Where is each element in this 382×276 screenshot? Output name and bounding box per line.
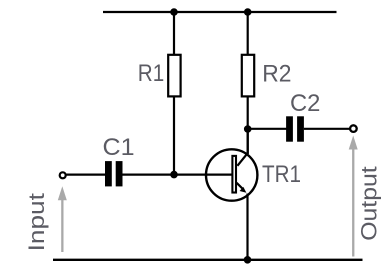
svg-text:TR1: TR1 — [262, 161, 301, 188]
input terminal — [60, 172, 66, 178]
wire rail to R1 — [173, 12, 175, 56]
output terminal — [350, 125, 357, 132]
wire input terminal to C1 — [66, 174, 105, 176]
svg-text:R1: R1 — [138, 60, 164, 87]
wire C2 to output terminal — [304, 128, 350, 130]
capacitor C2 plate right — [297, 116, 304, 141]
svg-text:R2: R2 — [262, 60, 291, 87]
capacitor C1 plate right — [116, 161, 123, 186]
junction dot rail/R1 — [170, 8, 178, 16]
wire top supply rail — [103, 11, 337, 13]
input signal arrow — [58, 186, 67, 252]
svg-text:Input: Input — [24, 193, 49, 251]
wire R1 to base node — [173, 96, 175, 176]
transistor TR1 collector stroke — [237, 153, 248, 166]
junction dot rail/R2 — [244, 8, 252, 16]
transistor TR1 emitter arrowhead — [240, 187, 247, 193]
resistor R1 — [168, 55, 180, 97]
junction dot collector/C2 node — [244, 125, 252, 133]
wire emitter to ground rail — [246, 194, 248, 261]
wire collector diag to junction (through circle top) — [247, 129, 249, 154]
capacitor C1 plate left — [105, 161, 112, 186]
output signal arrow — [349, 136, 358, 257]
wire rail to R2 — [247, 12, 249, 56]
transistor TR1 emitter stroke — [237, 183, 244, 190]
svg-text:Output: Output — [357, 166, 382, 241]
wire bottom ground rail — [53, 259, 363, 261]
wire collector node to C2 — [248, 128, 287, 130]
resistor R2 — [242, 55, 254, 97]
transistor TR1 body circle — [206, 149, 257, 200]
capacitor C2 plate left — [286, 116, 293, 141]
svg-text:C2: C2 — [290, 90, 320, 117]
junction dot emitter/ground rail — [244, 256, 252, 264]
wire C1 to transistor base — [123, 174, 233, 176]
transistor TR1 base bar — [232, 156, 236, 193]
wire R2 to collector node — [247, 96, 249, 154]
junction dot base node — [170, 171, 178, 179]
svg-text:C1: C1 — [103, 134, 135, 161]
